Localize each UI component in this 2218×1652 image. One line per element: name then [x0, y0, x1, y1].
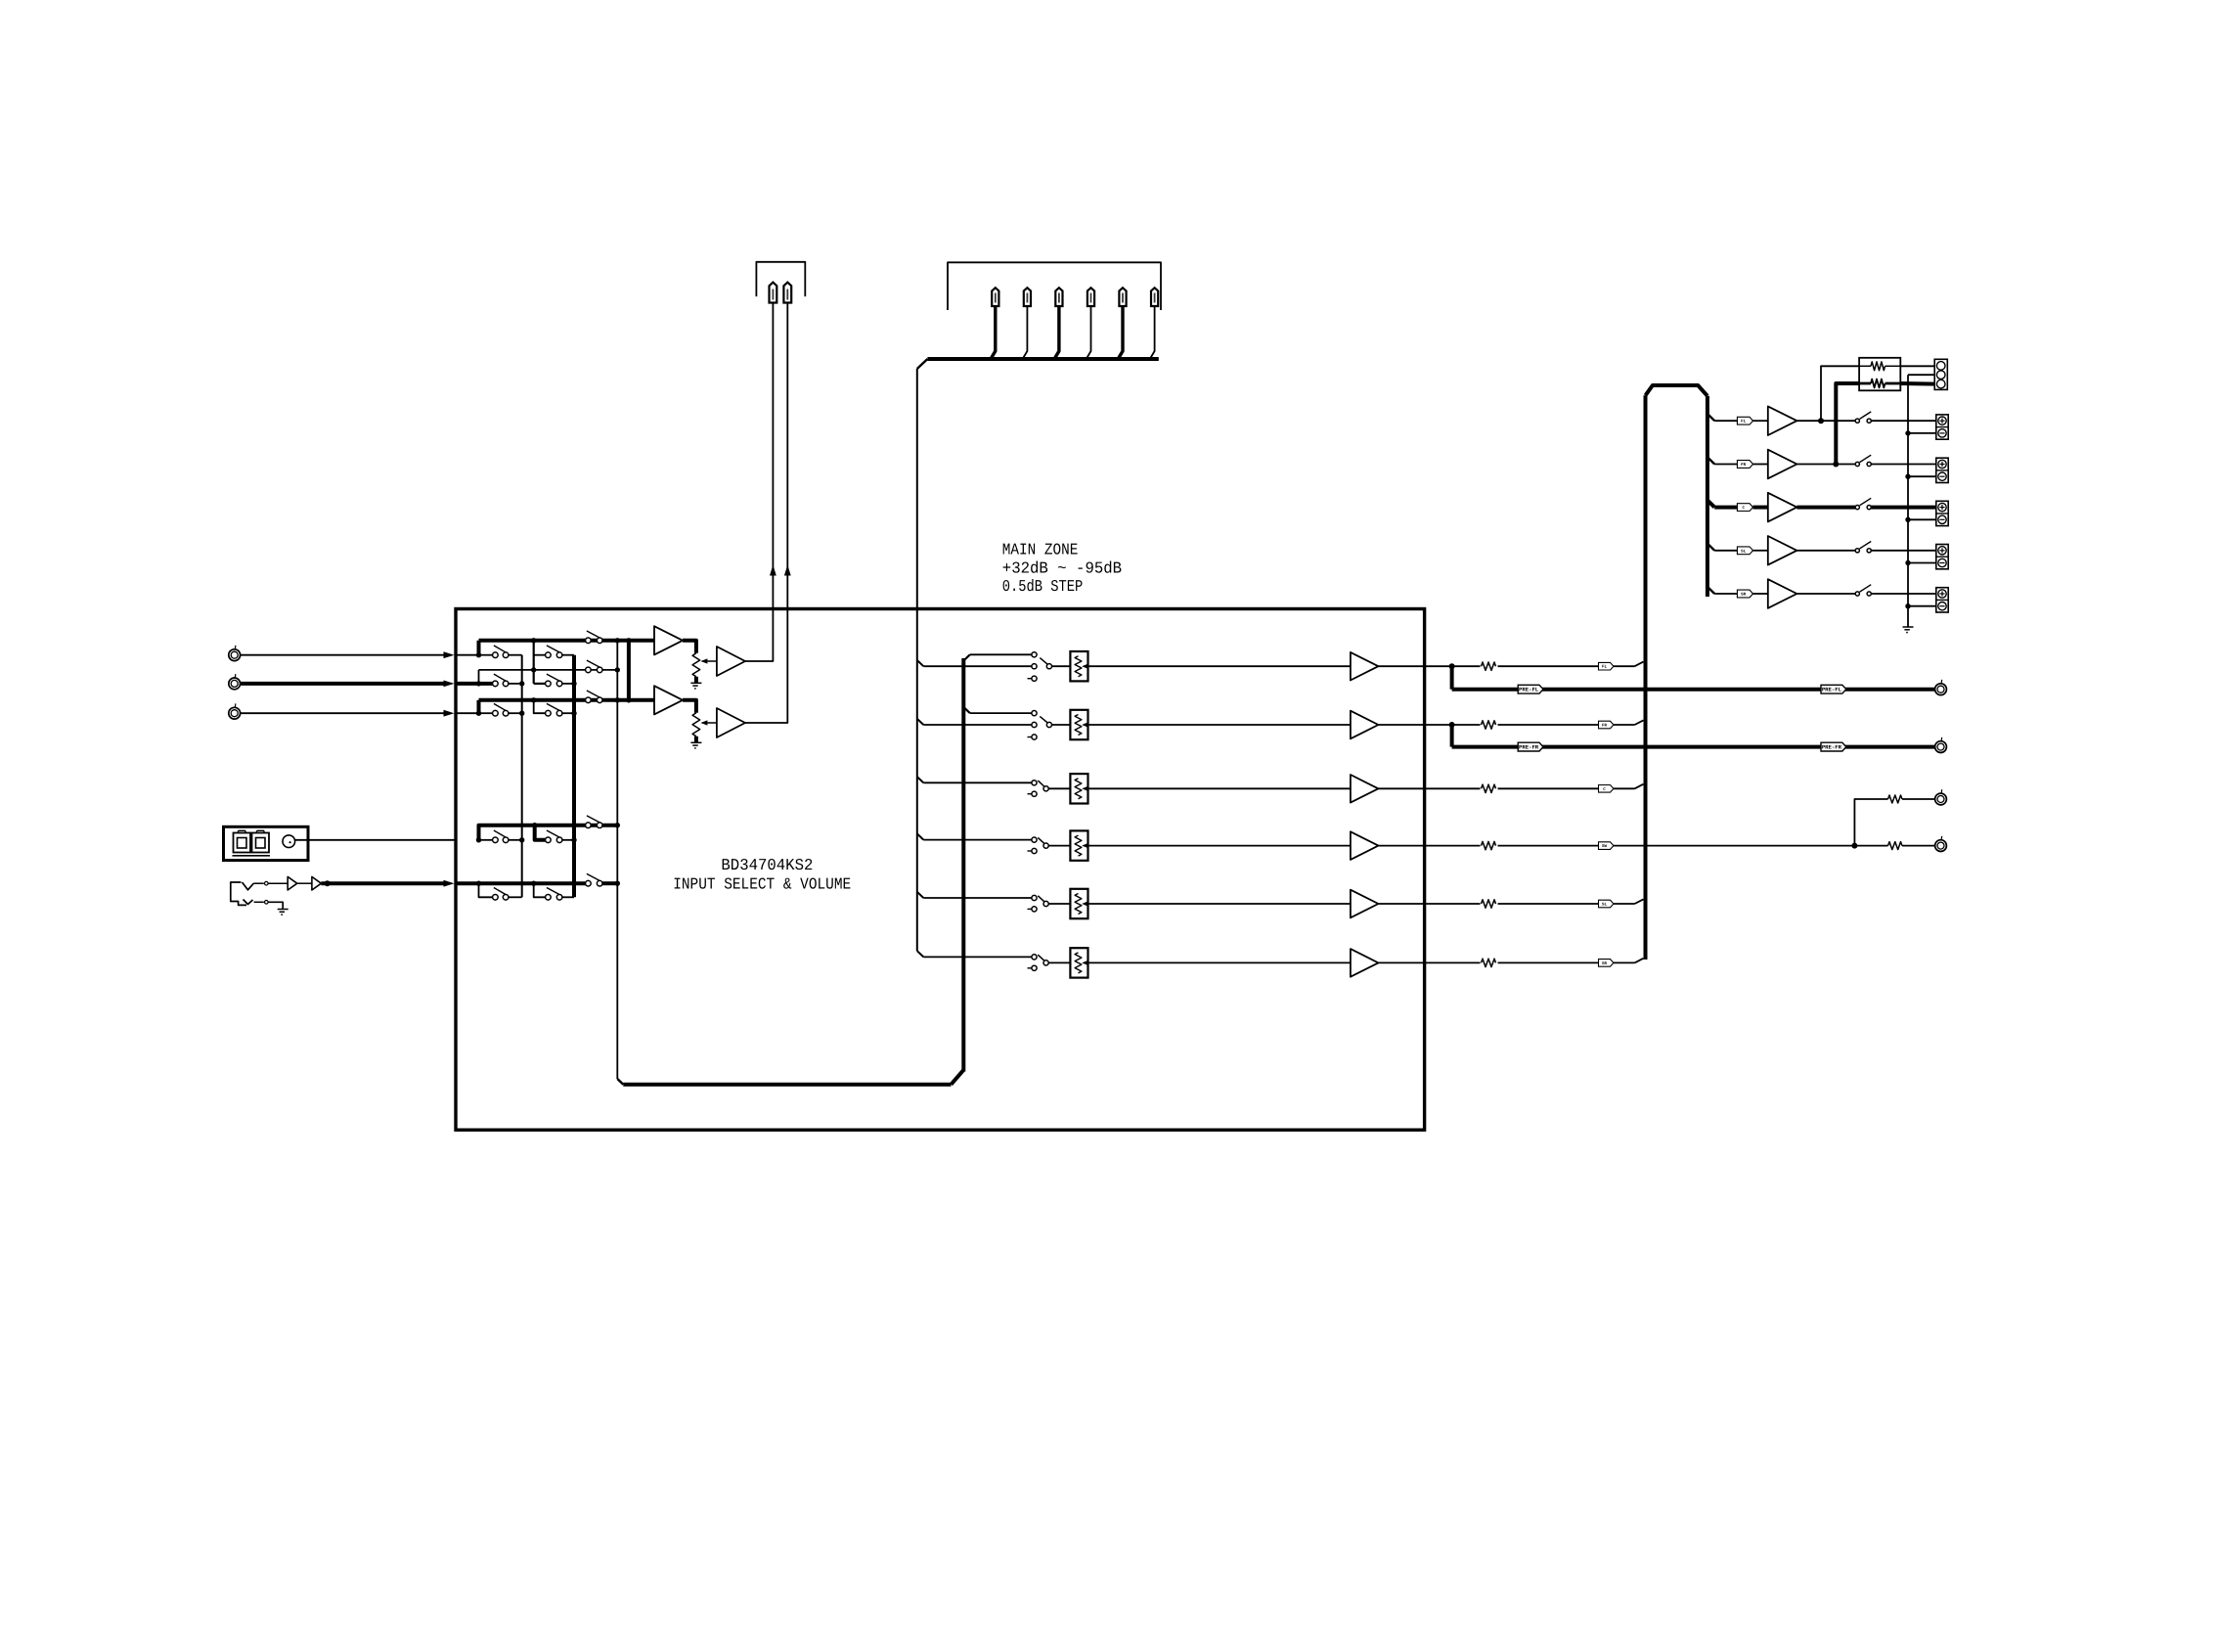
buffer A1b [717, 647, 745, 676]
node SW branch [1851, 843, 1857, 849]
ground VR1 [690, 683, 701, 689]
resistor R2 [1482, 721, 1496, 729]
wire vertical bus thin [916, 369, 918, 951]
optical ports underline [233, 855, 271, 857]
speaker terminal SR [1936, 588, 1948, 612]
wire AV5 out [1378, 903, 1480, 905]
arrow up riser 2 [784, 565, 791, 576]
header CN3 pin 4 (SW) [1087, 288, 1094, 306]
svg-text:SR: SR [1741, 593, 1747, 598]
wire FR to Zobel [1836, 383, 1859, 465]
node V587 opt [571, 837, 576, 842]
header CN2 pin 1 [770, 283, 777, 303]
node minus FR [1905, 474, 1910, 479]
node input row 2 junction [476, 681, 481, 686]
wire label to amp FR [1753, 464, 1768, 466]
node input row 3 junction [476, 711, 481, 716]
net label SL right [1737, 547, 1752, 555]
switch S1c on bus line [586, 631, 602, 644]
wire label to amp SR [1753, 593, 1768, 595]
wire attenuator 4 to amp [1088, 845, 1351, 847]
svg-text:SL: SL [1741, 549, 1747, 554]
wire CN4 mid to minus [1908, 374, 1936, 376]
wire AP-SL to switch [1797, 550, 1855, 552]
bus thin branch chamfer 2 [917, 719, 924, 725]
op-amp A2 [654, 686, 683, 714]
attenuator R-vol1 [1070, 651, 1087, 681]
header CN2 bracket [756, 262, 805, 296]
speaker terminal C [1936, 501, 1948, 525]
wire RN-a to CN4 [1900, 365, 1937, 367]
wire bus line C [479, 698, 655, 702]
wire opt row to S4a [479, 839, 494, 841]
wire optbr drop to S4b [535, 826, 546, 840]
wire R5 to label [1498, 903, 1599, 905]
wire label to bus SR [1614, 959, 1644, 963]
node hp-V631 [615, 881, 620, 886]
net label C right [1737, 504, 1752, 512]
wire terminal minus SL [1908, 562, 1936, 564]
net label FL [1599, 662, 1614, 670]
wire buffer out riser [745, 303, 773, 662]
wire link row 2 to bus line [478, 670, 480, 684]
wire CN3 pin 5 to bus [1119, 306, 1123, 358]
svg-text:PRE-FR: PRE-FR [1519, 744, 1539, 751]
switch S2b [546, 674, 562, 687]
wire terminal minus FL [1908, 432, 1936, 434]
switch S1a [493, 646, 509, 658]
switch S4b [546, 830, 562, 843]
wire CN1 to chip [295, 839, 457, 841]
net label FR [1599, 721, 1614, 729]
switch S3b [546, 703, 562, 716]
bus thin bottom chamfer [917, 951, 924, 957]
wire hp drop 2 to S5b [534, 883, 546, 897]
node opt entry junction [476, 837, 481, 842]
wire V643 [627, 641, 631, 700]
bus thin branch chamfer 5 [917, 892, 924, 898]
wire SL to label [1714, 550, 1737, 552]
amplifier AP-C [1768, 493, 1797, 522]
volume switch SV1 common [1040, 658, 1051, 669]
node minus SR [1905, 603, 1910, 608]
switch S4c on opt bracket [586, 816, 602, 828]
volume switch SV2 contacts [1028, 711, 1038, 740]
wire bottom loop [623, 1083, 951, 1087]
wire SR to label [1714, 593, 1737, 595]
ground VR2 [690, 742, 701, 748]
wire S3b to V587 [561, 712, 574, 714]
switch S2c on bus line [586, 660, 602, 673]
wire AV6 out [1378, 961, 1480, 963]
buffer B1 [288, 876, 297, 890]
svg-text:PRE-FR: PRE-FR [1822, 744, 1842, 751]
volume switch SV4 common [1038, 837, 1048, 848]
node V587 row2 [571, 681, 576, 686]
junction hp out [325, 880, 331, 886]
resistor R-SW1 [1888, 795, 1903, 803]
wire AV3 out [1378, 787, 1480, 789]
wire opt bracket link [479, 826, 618, 840]
ground speaker minus [1903, 627, 1914, 633]
node minus FL [1905, 430, 1910, 435]
attenuator R-vol6 [1070, 948, 1087, 977]
ground hp jack [278, 910, 288, 915]
resistor R6 [1482, 959, 1496, 966]
header CN3 pin 2 (FR) [1024, 288, 1031, 306]
node hp row junction 2 [531, 881, 536, 886]
wire R-SW2 to jack [1902, 845, 1935, 847]
wire CN3 pin 1 to bus [992, 306, 996, 358]
wire S1a to V533 [508, 654, 521, 656]
net label SW [1599, 842, 1614, 850]
wire vertical bus thick [952, 654, 970, 1084]
svg-text:FL: FL [1602, 665, 1608, 670]
node hp row junction 1 [476, 881, 481, 886]
wire to resistor R1 [1452, 665, 1481, 667]
volume switch SV4 contacts [1028, 837, 1038, 854]
amplifier AV2 [1351, 711, 1379, 739]
wire mid feed row 1 [923, 665, 1032, 667]
wire hp drop 1 to S5a [479, 883, 494, 897]
wire mid feed row 3 [923, 781, 1032, 783]
wire SW to R-SW2 [1854, 845, 1887, 847]
wire SV1 to attenuator [1052, 665, 1071, 667]
wire pre riser 2 [1450, 725, 1454, 747]
wire link row 3 to bus line [477, 700, 481, 713]
svg-text:FR: FR [1602, 724, 1608, 729]
bus wire vertical right [1706, 396, 1709, 597]
RCA input jack J2 [229, 674, 241, 690]
wire V587 [572, 655, 576, 898]
attenuator R-vol3 [1070, 774, 1087, 803]
buffer A2b [717, 708, 745, 737]
wire label to amp C [1753, 506, 1768, 510]
net label PRE-FL a [1518, 685, 1543, 693]
svg-text:SW: SW [1602, 844, 1608, 849]
resistor R5 [1482, 900, 1496, 908]
svg-text:SL: SL [1602, 903, 1608, 908]
wire CN3 pin 4 to bus [1087, 306, 1090, 358]
wire terminal minus SR [1908, 605, 1936, 607]
switch S5b [546, 888, 562, 901]
wire mid feed row 4 [923, 839, 1032, 841]
wire bus line B [479, 669, 618, 671]
wire A1 out to pot [683, 641, 696, 653]
RCA output jack PRE-FR [1935, 737, 1947, 753]
svg-text:PRE-FL: PRE-FL [1519, 687, 1539, 693]
wire B1 to B2 [297, 882, 312, 884]
wire RN-b to CN4 [1900, 381, 1937, 386]
wire S5b to V587 [561, 896, 574, 898]
net label FR right [1737, 461, 1752, 469]
speaker relay SW-FR [1855, 455, 1871, 466]
wire switch to terminal SR [1871, 593, 1936, 595]
wire AP-C to switch [1797, 506, 1855, 510]
node V533 row2 [519, 681, 524, 686]
wire R-SW1 to jack [1902, 798, 1935, 800]
svg-text:INPUT SELECT & VOLUME: INPUT SELECT & VOLUME [673, 875, 851, 894]
bus exit chamfer FL [1708, 414, 1714, 421]
speaker terminal FL [1936, 415, 1948, 439]
RCA input jack J1 [229, 646, 241, 661]
amplifier AP-FL [1768, 406, 1797, 435]
IC U1 label text [673, 856, 851, 893]
RCA output jack SW1 [1935, 789, 1947, 805]
wire pot wiper to buffer [700, 658, 717, 663]
wire buffer out riser [745, 303, 787, 724]
wire mid feed row 5 [923, 897, 1032, 899]
switch S1b [546, 646, 562, 658]
wire label to amp SL [1753, 550, 1768, 552]
wire V546 upper segment [534, 641, 546, 684]
node AP-FR out [1833, 462, 1839, 468]
resistor RN-b [1859, 380, 1900, 388]
wire attenuator 1 to amp [1088, 665, 1351, 667]
wire J2 to chip [241, 681, 455, 688]
wire input row 3 to switch [479, 712, 494, 714]
wire PRE-FL [1452, 688, 1935, 692]
bus exit chamfer C [1708, 500, 1714, 507]
node C-V546 [531, 697, 536, 702]
switch S5c on hp row [586, 873, 602, 886]
potentiometer VR1 [692, 653, 700, 683]
wire AP-FR to switch [1797, 464, 1855, 466]
wire AP-SR to switch [1797, 593, 1855, 595]
wire R1 to label [1498, 665, 1599, 667]
header CN3 pin 6 (SR) [1151, 288, 1158, 306]
wire to resistor R2 [1452, 724, 1481, 726]
wire FL to Zobel [1821, 366, 1859, 421]
optical-coax connector CN1 box [224, 826, 309, 860]
hp ring wire and contact circle [254, 901, 284, 910]
wire FL to label [1714, 420, 1737, 422]
node pre split 1 [1449, 663, 1455, 669]
svg-text:0.5dB STEP: 0.5dB STEP [1002, 577, 1084, 596]
wire pot wiper to buffer [700, 720, 717, 725]
bus thin branch chamfer 3 [917, 777, 924, 782]
attenuator R-vol5 [1070, 889, 1087, 918]
node A-V643 [626, 638, 631, 643]
wire SV4 to attenuator [1048, 845, 1070, 847]
wire mid feed row 2 [923, 724, 1032, 726]
node B-V631 [615, 667, 620, 672]
net label SL [1599, 900, 1614, 908]
wire S3a to V533 [508, 712, 521, 714]
bus exit chamfer SL [1708, 544, 1714, 551]
svg-text:PRE-FL: PRE-FL [1822, 687, 1842, 693]
node AP-FL out [1818, 418, 1824, 424]
bus link top [1646, 385, 1708, 396]
wire S5c to V631 [602, 881, 618, 885]
wire AV2 out [1378, 724, 1451, 726]
speaker relay SW-SR [1855, 585, 1871, 596]
wire hp row across [456, 881, 586, 885]
speaker relay SW-FL [1855, 412, 1871, 423]
bus thin branch chamfer 1 [917, 660, 924, 666]
wire pre riser 1 [1450, 666, 1454, 690]
bus thick branch chamfer r2 [963, 707, 970, 713]
wire label to bus C [1614, 784, 1644, 789]
headphone jack ring contact [244, 900, 253, 905]
svg-text:FR: FR [1741, 463, 1747, 468]
volume switch SV1 contacts [1028, 652, 1038, 682]
node B-V546 [531, 667, 536, 672]
wire S4b to V587 [561, 839, 574, 841]
wire switch to terminal SL [1871, 550, 1936, 552]
coax jack circle [283, 835, 295, 848]
wire switch to terminal C [1871, 506, 1936, 510]
headphone jack J4 sleeve [231, 882, 246, 905]
wire link row 1 to bus line [477, 641, 481, 655]
wire CN3 pin 2 to bus [1023, 306, 1027, 358]
amplifier AV1 [1351, 652, 1379, 681]
node pre split 2 [1449, 722, 1455, 728]
wire SV6 to attenuator [1048, 961, 1070, 963]
net label PRE-FL b [1821, 685, 1846, 693]
wire AP-FL to switch [1797, 420, 1855, 422]
wire S2a to V533 [508, 683, 521, 685]
amplifier AV3 [1351, 775, 1379, 803]
node V587 row3 [571, 711, 576, 716]
wire input row 3 entry [456, 712, 479, 714]
resistor network box [1859, 358, 1900, 391]
connector CN4 [1934, 359, 1947, 389]
wire upper feed row 1 [970, 653, 1033, 655]
resistor RN-a [1859, 362, 1900, 371]
wire AV4 out [1378, 845, 1480, 847]
wire S2b to V587 [561, 683, 574, 685]
wire attenuator 5 to amp [1088, 903, 1351, 905]
amplifier AP-SL [1768, 536, 1797, 565]
RCA output jack PRE-FL [1935, 680, 1947, 695]
wire SV5 to attenuator [1048, 903, 1070, 905]
wire S4a to V533 [508, 839, 521, 841]
svg-text:BD34704KS2: BD34704KS2 [721, 856, 813, 874]
volume switch SV6 common [1038, 955, 1048, 965]
svg-text:SR: SR [1602, 961, 1608, 966]
svg-text:MAIN ZONE: MAIN ZONE [1002, 541, 1079, 559]
wire SV3 to attenuator [1048, 787, 1070, 789]
switch S3a [493, 703, 509, 716]
node minus SL [1905, 560, 1910, 565]
IC U1 BD34704KS2 outline [456, 609, 1425, 1131]
net label PRE-FR a [1518, 742, 1543, 751]
wire input row 2 entry [456, 682, 479, 686]
wire mid feed row 6 [923, 956, 1032, 958]
wire label to amp FL [1753, 420, 1768, 422]
potentiometer VR2 [692, 713, 700, 742]
node V533 row3 [519, 711, 524, 716]
node C-V643 [626, 697, 631, 702]
wire C to label [1714, 506, 1737, 510]
wire FR to label [1714, 464, 1737, 466]
resistor R-SW2 [1888, 842, 1903, 850]
attenuator R-vol4 [1070, 830, 1087, 860]
wire input row 1 entry [456, 654, 479, 656]
bus chamfer to V-thin [917, 359, 928, 369]
wire R6 to label [1498, 961, 1599, 963]
wire R3 to label [1498, 787, 1599, 789]
node optbr-V631 [615, 823, 620, 827]
volume switch SV2 common [1040, 716, 1051, 727]
net label SR [1599, 960, 1614, 967]
speaker relay SW-C [1855, 498, 1871, 509]
node input row 1 junction [476, 652, 481, 657]
volume switch SV6 contacts [1028, 955, 1038, 971]
wire V546 seg row3 [534, 700, 546, 713]
optical port 2 glyph [252, 830, 270, 852]
wire label to bus FR [1614, 720, 1644, 725]
wire PRE-FR [1452, 745, 1935, 749]
node A-V546 [531, 638, 536, 643]
wire SV2 to attenuator [1052, 724, 1071, 726]
bus wire vertical left [1644, 395, 1648, 960]
header CN3 pin 5 (SL) [1119, 288, 1126, 306]
net label FL right [1737, 417, 1752, 424]
volume switch SV3 contacts [1028, 781, 1038, 797]
wire label to bus FL [1614, 662, 1644, 667]
hp tip contact circle [253, 881, 268, 885]
amplifier AV6 [1351, 949, 1379, 977]
op-amp A1 [654, 626, 683, 654]
header CN2 pin 2 [783, 283, 791, 303]
header CN3 bracket [948, 262, 1161, 310]
switch S5a [493, 888, 509, 901]
node V533 opt [519, 837, 524, 842]
net label C [1599, 785, 1614, 793]
net label PRE-FR b [1821, 742, 1846, 751]
node A-V631 [615, 638, 620, 643]
header CN3 pin 1 (FL) [992, 288, 998, 306]
wire switch to terminal FR [1871, 464, 1936, 466]
wire upper feed row 2 [970, 712, 1033, 714]
wire attenuator 6 to amp [1088, 961, 1351, 963]
wire A2 out to pot [683, 700, 696, 713]
RCA input jack J3 [229, 703, 241, 719]
wire V533 [521, 655, 523, 898]
wire input row 2 to switch [479, 682, 494, 686]
wire label to bus SL [1614, 899, 1644, 904]
wire J3 to chip [241, 710, 455, 717]
attenuator R-vol2 [1070, 710, 1087, 739]
wire SW branch [1854, 799, 1887, 846]
wire attenuator 2 to amp [1088, 724, 1351, 726]
svg-text:FL: FL [1741, 420, 1747, 424]
bus exit chamfer FR [1708, 457, 1714, 464]
wire AV1 out [1378, 665, 1451, 667]
wire minus vertical [1907, 375, 1909, 627]
node C-V631 [615, 697, 620, 702]
volume switch SV3 common [1038, 781, 1048, 791]
wire S5a to V533 [508, 896, 521, 898]
bus exit chamfer SR [1708, 587, 1714, 594]
wire S1b to V587 [561, 654, 574, 656]
wire V631 bottom chamfer [617, 1079, 623, 1085]
volume switch SV5 common [1038, 896, 1048, 907]
headphone jack tip contact [243, 882, 254, 890]
speaker terminal SL [1936, 545, 1948, 569]
net label SR right [1737, 590, 1752, 598]
header CN3 pin 3 (C) [1055, 288, 1062, 306]
wire hp contact to buffer B1 [268, 882, 288, 884]
resistor R4 [1482, 841, 1496, 849]
resistor R3 [1482, 784, 1496, 792]
speaker terminal FR [1936, 458, 1948, 482]
amplifier AV5 [1351, 890, 1379, 918]
RCA output jack SW2 [1935, 836, 1947, 852]
wire V631 [616, 641, 618, 1079]
